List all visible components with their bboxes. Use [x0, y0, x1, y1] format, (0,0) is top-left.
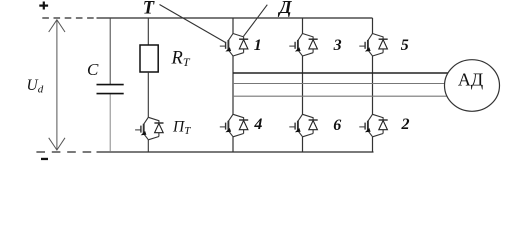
svg-text:3: 3	[333, 37, 342, 54]
svg-text:1: 1	[254, 37, 262, 54]
svg-text:2: 2	[401, 116, 410, 133]
svg-text:Д: Д	[277, 0, 292, 17]
svg-text:C: C	[87, 60, 99, 79]
svg-text:RT: RT	[171, 49, 191, 70]
svg-text:Ud: Ud	[27, 77, 44, 95]
svg-text:4: 4	[253, 116, 262, 133]
svg-text:ПТ: ПТ	[172, 119, 191, 138]
svg-text:5: 5	[401, 37, 409, 54]
svg-text:6: 6	[333, 117, 341, 134]
svg-text:АД: АД	[458, 70, 483, 90]
svg-text:T: T	[143, 0, 155, 18]
